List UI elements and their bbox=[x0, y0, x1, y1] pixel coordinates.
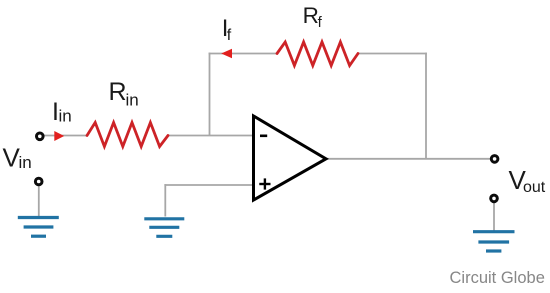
svg-text:R: R bbox=[303, 3, 319, 28]
wire: op-amp output to Vout terminal bbox=[326, 158, 491, 160]
wire: top feedback left segment to Rf bbox=[209, 53, 278, 55]
terminal: Vout ground-side circle bbox=[491, 195, 498, 202]
label Rin bbox=[109, 78, 139, 110]
arrow: input current Iin (points right) bbox=[54, 131, 64, 141]
wire: Vout lower terminal down to ground G3 bbox=[493, 203, 495, 231]
svg-text:f: f bbox=[318, 14, 323, 31]
svg-text:R: R bbox=[109, 78, 127, 106]
wire: Rin right lead to op-amp inverting input bbox=[167, 135, 254, 137]
wire: top feedback right segment from Rf to right vertical bbox=[358, 53, 427, 55]
op-amp U1 triangle bbox=[254, 116, 327, 200]
terminal: Vin input circle bbox=[37, 133, 44, 140]
ground G2 (non-inverting input) bbox=[144, 219, 184, 237]
resistor Rin (zigzag) bbox=[87, 123, 168, 147]
ground G3 (below Vout) bbox=[473, 232, 515, 251]
wire: feedback vertical from inverting node up bbox=[209, 53, 211, 136]
terminal: Vout circle bbox=[491, 156, 498, 163]
wire: non-inverting input horizontal bbox=[164, 184, 254, 186]
wire: Vin terminal to Rin left lead bbox=[44, 135, 88, 137]
label Rf bbox=[303, 3, 323, 31]
label Iin bbox=[52, 98, 72, 126]
svg-text:in: in bbox=[59, 107, 72, 126]
label Vout bbox=[509, 165, 546, 196]
svg-text:Circuit Globe: Circuit Globe bbox=[450, 269, 545, 287]
op-amp inverting (-) sign bbox=[260, 135, 267, 138]
wire: right vertical from top feedback down to output bbox=[425, 53, 427, 159]
ground G1 (below Vin) bbox=[18, 218, 59, 237]
label Vin bbox=[3, 143, 32, 173]
svg-text:f: f bbox=[227, 27, 232, 44]
wire: non-inverting input down to ground G2 bbox=[164, 184, 166, 216]
svg-text:in: in bbox=[19, 153, 32, 172]
op-amp non-inverting (+) sign bbox=[259, 183, 270, 185]
arrow: feedback current If (points left) bbox=[221, 49, 232, 59]
svg-text:out: out bbox=[523, 179, 546, 196]
wire: Vin lower terminal down to ground G1 bbox=[38, 186, 40, 216]
svg-text:in: in bbox=[126, 91, 139, 110]
terminal: Vin ground-side circle bbox=[35, 178, 42, 185]
resistor Rf (zigzag) bbox=[277, 42, 358, 66]
label If bbox=[222, 15, 232, 44]
